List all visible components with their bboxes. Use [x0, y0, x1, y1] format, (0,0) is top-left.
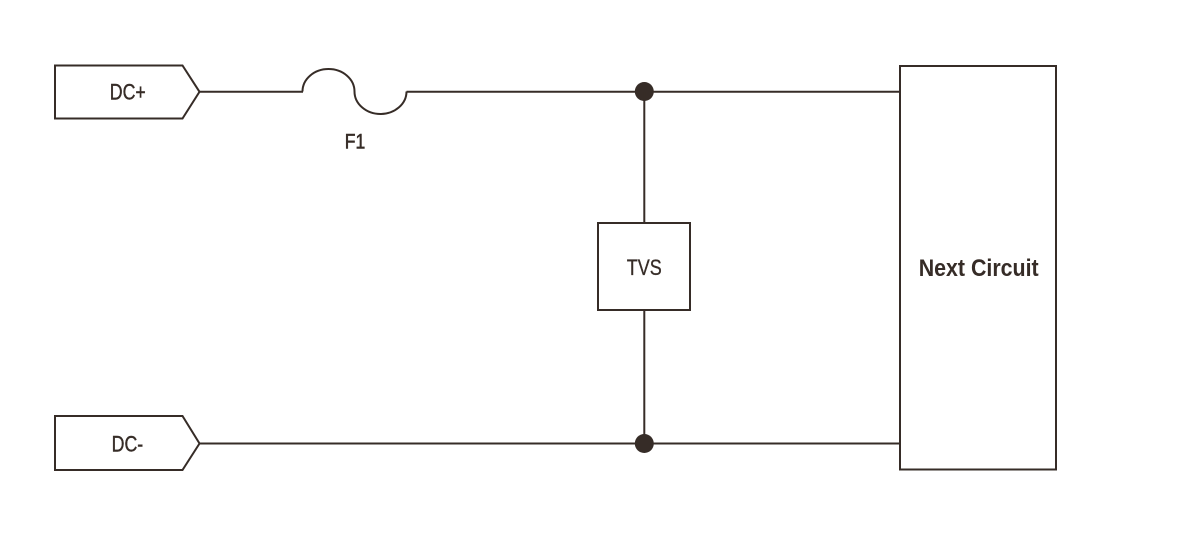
- junction node top: [635, 82, 654, 101]
- TVS box: [598, 223, 690, 310]
- wire junction to TVS: [643, 92, 645, 225]
- wire DC+ to fuse: [199, 91, 304, 93]
- wire DC- to Next Circuit: [199, 443, 902, 445]
- wire fuse to Next Circuit: [407, 91, 902, 93]
- port DC+: [55, 66, 200, 119]
- wire TVS to bottom junction: [643, 310, 645, 444]
- svg-text:Next Circuit: Next Circuit: [919, 255, 1039, 282]
- svg-text:DC+: DC+: [110, 79, 146, 104]
- svg-text:DC-: DC-: [112, 431, 144, 456]
- svg-text:TVS: TVS: [627, 255, 662, 280]
- port DC-: [55, 416, 200, 470]
- Next Circuit box: [900, 66, 1056, 470]
- svg-text:F1: F1: [345, 130, 366, 154]
- junction node bottom: [635, 434, 654, 453]
- fuse F1: [303, 69, 407, 114]
